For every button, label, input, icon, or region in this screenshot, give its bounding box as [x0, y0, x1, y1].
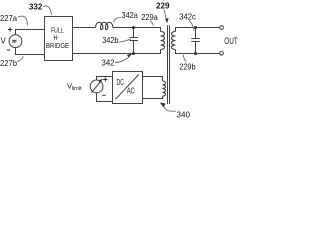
svg-text:229: 229 [156, 2, 170, 11]
svg-text:OUT: OUT [224, 36, 238, 46]
svg-text:AC: AC [127, 86, 135, 95]
svg-text:340: 340 [177, 111, 191, 120]
svg-text:227b: 227b [0, 59, 17, 68]
svg-text:DC: DC [117, 78, 125, 87]
svg-text:BRIDGE: BRIDGE [46, 43, 69, 50]
svg-text:227a: 227a [0, 14, 17, 23]
svg-text:limit: limit [72, 86, 82, 92]
svg-text:332: 332 [29, 2, 43, 11]
svg-text:342a: 342a [122, 11, 139, 20]
svg-text:229b: 229b [179, 62, 196, 71]
svg-text:342b: 342b [102, 36, 119, 45]
svg-text:H-: H- [54, 35, 60, 42]
svg-text:FULL: FULL [51, 27, 64, 34]
svg-text:342c: 342c [179, 12, 196, 21]
svg-text:229a: 229a [141, 13, 158, 22]
svg-text:342: 342 [102, 58, 115, 67]
svg-text:V: V [1, 37, 7, 46]
